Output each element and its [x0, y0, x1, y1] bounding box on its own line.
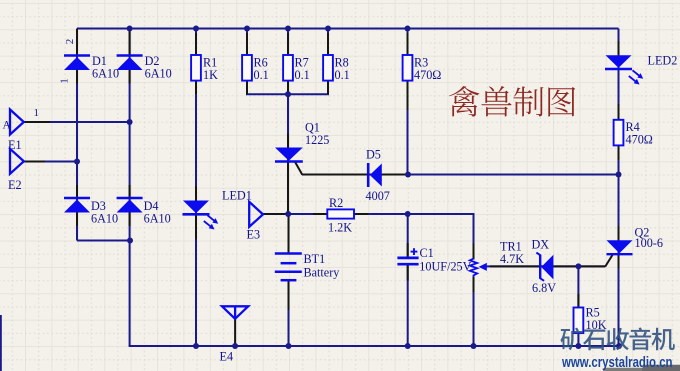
wire: R3 column — [407, 29, 409, 175]
pin: Q1 anode — [287, 134, 289, 148]
node: E2 / D1-D3 bridge — [74, 159, 80, 165]
pin: R2 left — [313, 213, 327, 215]
svg-text:470Ω: 470Ω — [414, 68, 441, 82]
node: top rail / R6 — [244, 26, 250, 32]
svg-text:LED2: LED2 — [648, 54, 678, 68]
wire: D1 column (top rail to D3) — [76, 29, 78, 241]
svg-text:10UF/25V: 10UF/25V — [419, 260, 471, 274]
thyristor Q2 — [607, 226, 663, 255]
title text 禽兽制图 (red) — [449, 86, 575, 117]
wire: zener to Q2 gate net — [485, 265, 606, 267]
capacitor C1 — [397, 246, 471, 274]
svg-text:0.1: 0.1 — [335, 68, 350, 82]
node: D5 anode / R3 — [405, 172, 411, 178]
node: R7 / Q1 anode — [285, 91, 291, 97]
wire: D3-D4 anode link — [77, 240, 131, 242]
pin: C1 bottom — [407, 264, 409, 280]
pin: E2 — [24, 161, 45, 163]
node: ground / R5 — [575, 343, 581, 349]
watermark logo shape (gray) — [603, 368, 680, 371]
wire: C1 column bottom — [407, 264, 409, 346]
pin: Q1 cathode — [287, 161, 289, 213]
node: ground / TR1 — [471, 343, 477, 349]
pin: Q2 anode — [618, 226, 620, 240]
connector E2 — [8, 149, 24, 192]
thyristor Q1 — [275, 121, 329, 162]
wire: E2 to bridge node — [24, 161, 77, 163]
diode D1 — [59, 39, 120, 84]
pin: D3 cathode — [76, 185, 78, 198]
svg-text:LED1: LED1 — [222, 189, 252, 203]
pin: E4 — [234, 319, 236, 345]
pin: R1 bottom — [195, 81, 197, 94]
wire: R7 / Q1 column — [287, 29, 289, 214]
pin: D2 anode — [129, 70, 131, 84]
diode D2 — [117, 54, 172, 81]
resistor R1 — [191, 55, 218, 82]
svg-text:DX: DX — [532, 238, 550, 252]
wire: LED2 / R4 / Q2 column — [618, 29, 620, 347]
LED LED2 — [605, 54, 677, 85]
resistor R4 — [614, 120, 653, 147]
node: ground / BT1 — [286, 343, 292, 349]
wire: TR1 column bottom — [473, 277, 475, 346]
pin: D5 anode — [382, 174, 405, 176]
zener diode DX — [532, 238, 557, 296]
pin: R4 bottom — [618, 145, 620, 160]
LED2 arrow 1 — [633, 70, 640, 76]
svg-text:470Ω: 470Ω — [626, 133, 653, 147]
connector E3 — [247, 202, 264, 242]
pin: LED2 anode — [618, 41, 620, 55]
pin: TR1 top — [473, 243, 475, 259]
svg-text:C1: C1 — [420, 246, 434, 260]
wire: TR1 column top — [473, 213, 475, 260]
wire: R6-R7-R8 bottom link — [246, 93, 329, 95]
wire: R5 column — [577, 266, 579, 346]
watermark logo text 矿石收音机 — [560, 328, 674, 351]
node: R4 / Q2 anode — [616, 172, 622, 178]
pin: R6 top — [246, 33, 248, 55]
resistor R2 — [327, 196, 354, 235]
pin: Q2 gate diagonal — [605, 255, 612, 267]
node: top rail / R1 — [193, 26, 199, 32]
pin: R5 top — [577, 294, 579, 308]
svg-text:6.8V: 6.8V — [532, 281, 556, 295]
resistor R7 — [283, 55, 310, 82]
svg-text:A: A — [3, 120, 12, 132]
pin: R8 bottom — [327, 81, 329, 95]
LED1 arrow 1 — [208, 215, 215, 221]
wire: battery column bottom — [288, 280, 290, 346]
svg-text:1: 1 — [59, 78, 71, 84]
wire: D5 output to R4/Q2 node — [408, 174, 619, 176]
pin: R7 top — [287, 33, 289, 55]
svg-text:E4: E4 — [220, 350, 234, 364]
node: E1 / D2-D4 bridge — [127, 119, 133, 125]
node: top rail / R3 — [405, 26, 411, 32]
node: top rail / R7 — [285, 26, 291, 32]
C1 plus sign — [411, 251, 418, 253]
battery BT1 — [275, 252, 340, 280]
pin: R2 right — [354, 213, 368, 215]
pin/wire: Q2 gate run — [490, 265, 605, 267]
svg-text:0.1: 0.1 — [295, 68, 310, 82]
pin: Q1 gate diagonal — [295, 162, 303, 175]
pin/wire: D5 cathode run to Q1 gate — [302, 174, 368, 176]
svg-text:BT1: BT1 — [304, 252, 326, 266]
svg-text:4007: 4007 — [366, 189, 390, 203]
LED2 arrow 2 — [629, 76, 636, 82]
sheet border (left edge) — [0, 315, 2, 371]
svg-text:0.1: 0.1 — [254, 68, 269, 82]
pin: D2 cathode — [129, 29, 131, 56]
node: DX / R5 / Q2 gate — [575, 263, 581, 269]
pin: D1 cathode — [76, 29, 78, 56]
pin: R8 top — [327, 33, 329, 55]
svg-text:E2: E2 — [8, 178, 22, 192]
node: ground / Q2 cathode — [616, 343, 622, 349]
pin/wire: Q1 gate run to D5 — [302, 174, 407, 176]
LED LED1 — [183, 189, 252, 230]
node: ground / C1 — [405, 343, 411, 349]
svg-text:E3: E3 — [247, 228, 261, 242]
wire: R6 column — [246, 29, 248, 95]
node: R2 / C1 — [405, 211, 411, 217]
pin: R1 top — [195, 33, 197, 55]
connector E1 — [3, 107, 40, 152]
pin: D3 anode — [76, 213, 78, 227]
pin: LED1 cathode — [195, 215, 197, 240]
svg-text:www.crystalradio.cn: www.crystalradio.cn — [561, 354, 672, 371]
pin: D4 cathode — [129, 185, 131, 198]
svg-text:Battery: Battery — [304, 266, 341, 280]
resistor R8 — [323, 55, 350, 82]
svg-text:6A10: 6A10 — [145, 67, 172, 81]
pin: E3 — [263, 213, 288, 215]
pin: D1 anode — [76, 70, 78, 84]
pin: R3 top — [407, 33, 409, 55]
TR1 wiper arrow — [479, 263, 487, 271]
svg-text:1K: 1K — [203, 68, 218, 82]
wire: bottom ground rail — [129, 345, 619, 347]
wire: E3/R2 horizontal net — [263, 213, 475, 215]
svg-text:1: 1 — [34, 107, 40, 119]
diode D3 — [64, 198, 118, 226]
svg-text:2: 2 — [64, 39, 76, 45]
potentiometer TR1 — [470, 240, 524, 278]
pin: LED1 anode — [195, 186, 197, 201]
svg-text:100-6: 100-6 — [635, 236, 663, 250]
pin: battery bottom — [288, 280, 290, 310]
svg-text:6A10: 6A10 — [92, 67, 119, 81]
svg-text:R2: R2 — [329, 196, 343, 210]
svg-text:D5: D5 — [366, 148, 381, 162]
pin: TR1 bottom — [473, 277, 475, 292]
pin: R6 bottom — [246, 81, 248, 95]
pin: E1 — [24, 121, 50, 123]
pin: C1 top — [407, 243, 409, 258]
svg-text:1225: 1225 — [305, 133, 329, 147]
node: E3 / Q1 cathode / BT1 / R2 — [285, 211, 291, 217]
connector E4 — [220, 306, 249, 363]
wire: battery column top — [288, 214, 290, 253]
node: top rail / D2 — [127, 26, 133, 32]
pin: battery top — [288, 216, 290, 253]
pin: LED2 cathode / R4 top — [618, 104, 620, 120]
node: ground / E4 — [232, 343, 238, 349]
diode D4 — [117, 198, 171, 226]
pin: Q2 cathode — [618, 254, 620, 268]
svg-text:4.7K: 4.7K — [500, 252, 524, 266]
resistor R6 — [242, 55, 269, 82]
svg-text:1.2K: 1.2K — [328, 221, 352, 235]
pin: R7 bottom — [287, 81, 289, 95]
resistor R5 — [574, 306, 607, 334]
pin: D4 anode — [129, 213, 131, 227]
wire: C1 column top — [407, 214, 409, 258]
LED1 arrow 2 — [204, 221, 211, 227]
svg-text:6A10: 6A10 — [91, 212, 118, 226]
node: top rail / R8 — [325, 26, 331, 32]
svg-text:6A10: 6A10 — [144, 212, 171, 226]
wire: D2 column (top rail down to bottom rail corner) — [129, 29, 131, 347]
wire: E1 to bridge node — [24, 121, 130, 123]
wire: R8 column — [327, 29, 329, 95]
wire: R1 / LED1 column — [195, 29, 197, 347]
pin: R3 bottom — [407, 81, 409, 110]
node: D3-D4 anodes — [127, 238, 133, 244]
resistor R3 — [403, 55, 442, 82]
node: ground / LED1 — [193, 343, 199, 349]
diode D5 — [366, 148, 390, 204]
wire: top positive rail — [77, 28, 619, 30]
